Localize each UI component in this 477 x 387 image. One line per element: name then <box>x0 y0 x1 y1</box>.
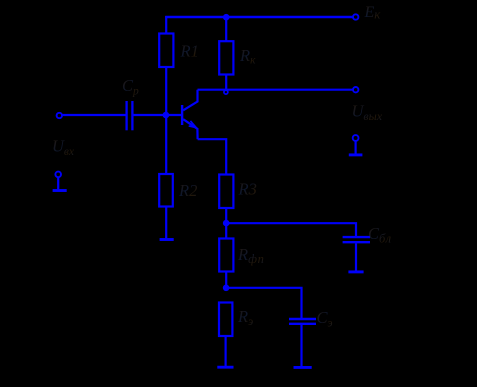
junction: node 2 <box>223 285 230 292</box>
svg-text:Rк: Rк <box>239 46 256 67</box>
terminal Ек <box>353 14 358 19</box>
ground bar under Сбл <box>348 270 363 273</box>
svg-text:R2: R2 <box>178 181 197 200</box>
junction: top rail to Rк <box>223 14 230 21</box>
wire: node 2 to Сэ <box>226 288 301 318</box>
svg-text:Ср: Ср <box>122 76 139 98</box>
wire: collector rail <box>198 89 353 91</box>
wire: input to Ср <box>62 114 125 116</box>
input terminal <box>57 113 62 118</box>
capacitor Сэ <box>289 319 316 366</box>
capacitor Сбл <box>343 237 370 271</box>
output terminal <box>353 87 358 92</box>
ground bar under Сэ <box>294 366 312 369</box>
resistor Rфп <box>219 223 233 288</box>
resistor R2 <box>159 115 173 239</box>
capacitor Ср <box>127 101 133 130</box>
resistor Rк <box>219 17 233 90</box>
resistor Rэ <box>219 303 232 367</box>
wire: node 1 to Сбл <box>226 223 356 236</box>
svg-text:Uвх: Uвх <box>52 137 75 159</box>
resistor R3 <box>219 175 233 209</box>
node circle: collector junction <box>224 90 228 94</box>
junction: node 1 <box>223 220 230 227</box>
transistor VT <box>182 90 198 140</box>
svg-text:Rэ: Rэ <box>237 307 253 328</box>
wire: top supply rail <box>165 16 352 19</box>
resistor R1 <box>159 16 173 115</box>
ground bar under R2 <box>160 238 174 241</box>
wire: R3 to node 1 <box>225 208 227 223</box>
svg-text:Сэ: Сэ <box>317 308 333 330</box>
svg-text:Rфп: Rфп <box>237 245 264 266</box>
svg-text:R3: R3 <box>238 180 257 199</box>
svg-text:Сбл: Сбл <box>368 224 392 246</box>
output common terminal <box>349 135 363 155</box>
wire: Ср to transistor base <box>134 114 182 116</box>
input common terminal <box>53 172 67 191</box>
svg-text:R1: R1 <box>180 42 199 61</box>
svg-text:Uвых: Uвых <box>352 102 383 124</box>
wire: emitter to R3 <box>198 139 227 174</box>
junction: base node <box>163 112 170 119</box>
svg-text:Ек: Ек <box>364 4 382 22</box>
ground bar under Rэ <box>217 366 233 369</box>
